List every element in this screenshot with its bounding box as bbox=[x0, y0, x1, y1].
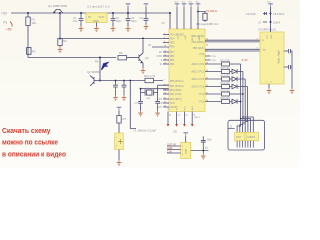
svg-text:C4: C4 bbox=[140, 16, 144, 20]
svg-text:32: 32 bbox=[164, 98, 166, 100]
radio top wire with caps bbox=[246, 2, 285, 32]
transistor Q2 bbox=[87, 70, 100, 86]
svg-text:1838: 1838 bbox=[186, 148, 188, 154]
buzzer branch flag bbox=[117, 107, 122, 110]
svg-text:PD1 (TXD): PD1 (TXD) bbox=[170, 94, 181, 96]
U5 power flag bbox=[183, 133, 188, 143]
svg-text:9: 9 bbox=[164, 41, 165, 43]
svg-text:C6 10uF: C6 10uF bbox=[246, 12, 256, 16]
svg-text:R2: R2 bbox=[63, 39, 67, 43]
svg-text:25: 25 bbox=[185, 115, 187, 117]
svg-text:11: 11 bbox=[164, 51, 166, 53]
resistor R7 bbox=[117, 111, 127, 134]
svg-text:U3 NRF24L01: U3 NRF24L01 bbox=[258, 28, 276, 32]
background sheet bbox=[0, 0, 300, 168]
svg-text:19: 19 bbox=[164, 106, 166, 108]
svg-text:PC6: PC6 bbox=[170, 103, 175, 105]
LED D2 bbox=[232, 69, 237, 74]
svg-text:C9 100nF: C9 100nF bbox=[206, 9, 218, 13]
ground under C2 bbox=[111, 26, 116, 31]
svg-text:100n: 100n bbox=[116, 19, 122, 23]
capacitor C3 with +3.3V flag bbox=[126, 4, 138, 26]
resistor R3 bbox=[27, 48, 36, 55]
svg-text:16M: 16M bbox=[146, 98, 150, 100]
svg-text:PC5: PC5 bbox=[200, 102, 205, 104]
svg-text:16: 16 bbox=[206, 45, 208, 47]
wire MCU drive bbox=[60, 38, 163, 40]
svg-text:C8 100nF: C8 100nF bbox=[273, 12, 285, 16]
resistor R14 bbox=[221, 82, 231, 89]
buzzer LS1 bbox=[115, 133, 124, 160]
node C5 label bbox=[162, 22, 166, 25]
svg-text:P1: P1 bbox=[4, 20, 8, 24]
svg-text:PB1: PB1 bbox=[170, 60, 175, 62]
ground under C1 bbox=[79, 26, 84, 31]
bottom rail bbox=[97, 80, 163, 82]
svg-text:R5: R5 bbox=[95, 60, 99, 64]
MCU top pins with power flags bbox=[175, 2, 201, 29]
svg-text:12: 12 bbox=[164, 55, 166, 57]
svg-text:100n: 100n bbox=[207, 139, 213, 142]
svg-text:Radio_Right: Radio_Right bbox=[278, 50, 281, 64]
connector J1 box bbox=[228, 120, 265, 150]
rail mid horizontal bbox=[28, 57, 116, 59]
wire Q1 base down bbox=[59, 12, 61, 40]
svg-text:PB7 (XTAL2): PB7 (XTAL2) bbox=[170, 85, 184, 88]
capacitor C6 bbox=[122, 80, 127, 95]
svg-text:PD6: PD6 bbox=[170, 47, 175, 49]
ground under C6 bbox=[122, 95, 127, 100]
capacitor C4 with +3.3V flag bbox=[140, 4, 149, 24]
transistor Q3 bbox=[139, 38, 149, 69]
svg-text:2: 2 bbox=[164, 37, 165, 39]
svg-text:ATmega328P-AU: ATmega328P-AU bbox=[196, 22, 218, 26]
wire top rail end to flag bbox=[169, 12, 171, 29]
svg-text:29: 29 bbox=[164, 102, 166, 104]
svg-text:Y1 16MHz-C/22pF: Y1 16MHz-C/22pF bbox=[133, 129, 156, 133]
svg-text:PD2 (INT0): PD2 (INT0) bbox=[170, 99, 182, 101]
LED D5 bbox=[232, 99, 237, 104]
resistor R13 bbox=[221, 74, 231, 81]
svg-text:PB4 (MISO): PB4 (MISO) bbox=[192, 42, 205, 44]
wire: +5V top rail bbox=[11, 12, 170, 14]
svg-text:7: 7 bbox=[164, 80, 165, 82]
svg-text:1: 1 bbox=[267, 82, 268, 84]
svg-text:PC4: PC4 bbox=[200, 94, 205, 96]
svg-text:GND: GND bbox=[185, 35, 187, 40]
svg-text:14: 14 bbox=[164, 63, 166, 65]
node +5V label bbox=[1, 11, 8, 15]
capacitor C1 bbox=[73, 12, 83, 26]
svg-text:10: 10 bbox=[164, 45, 166, 47]
svg-text:PD0 (RXD): PD0 (RXD) bbox=[170, 90, 182, 92]
ground under U1 bbox=[94, 26, 99, 31]
svg-text:R11 220: R11 220 bbox=[221, 59, 231, 62]
svg-text:10k: 10k bbox=[32, 21, 37, 25]
svg-text:OUT: OUT bbox=[236, 136, 242, 139]
svg-text:ICSP: ICSP bbox=[157, 56, 163, 58]
MCU pin numbers bbox=[164, 33, 208, 108]
U5 left pins with net labels bbox=[167, 143, 181, 153]
ground under R2 bbox=[58, 46, 63, 53]
svg-text:3: 3 bbox=[257, 38, 258, 40]
MCU left pins bbox=[152, 35, 169, 108]
ground under Q3 bbox=[141, 68, 146, 73]
connector pin wires bbox=[237, 141, 253, 148]
svg-text:8: 8 bbox=[164, 85, 165, 87]
wire buzzer net label bbox=[129, 80, 156, 133]
ground radio right bbox=[290, 88, 295, 93]
ground under C8 bbox=[155, 111, 160, 116]
ground under C5 bbox=[113, 95, 118, 100]
svg-text:Q3: Q3 bbox=[145, 56, 149, 60]
LED rows: resistors and LEDs bbox=[205, 64, 248, 102]
connector inner block bbox=[235, 132, 259, 141]
svg-text:10u: 10u bbox=[73, 19, 78, 23]
svg-text:3V3: 3V3 bbox=[175, 2, 178, 4]
svg-text:30: 30 bbox=[164, 89, 166, 91]
svg-text:R15 220: R15 220 bbox=[221, 89, 231, 92]
svg-text:R12 220: R12 220 bbox=[221, 67, 231, 70]
svg-text:R7: R7 bbox=[123, 117, 127, 121]
resistor R15 bbox=[221, 89, 231, 96]
IR receiver U5 bbox=[174, 131, 191, 159]
svg-text:22: 22 bbox=[193, 115, 195, 117]
capacitor C9 AREF bbox=[197, 9, 218, 22]
annotation red text bbox=[2, 127, 67, 159]
wire regulator gnd bbox=[96, 23, 98, 27]
svg-text:PB6 (XTAL1): PB6 (XTAL1) bbox=[170, 80, 184, 83]
svg-text:можно по ссылке: можно по ссылке bbox=[2, 139, 58, 147]
resistor R12 bbox=[221, 67, 231, 74]
svg-text:ADC7: ADC7 bbox=[195, 116, 202, 119]
svg-text:3V3: 3V3 bbox=[196, 2, 199, 4]
svg-text:R3: R3 bbox=[32, 50, 36, 54]
capacitor C7 bbox=[134, 99, 143, 111]
svg-text:Q2 S8050: Q2 S8050 bbox=[87, 70, 100, 74]
capacitor C8 bbox=[155, 99, 164, 111]
svg-text:24: 24 bbox=[178, 115, 180, 117]
svg-text:GND: GND bbox=[93, 19, 99, 23]
MCU top pin names rotated bbox=[178, 34, 201, 40]
svg-text:R14 220: R14 220 bbox=[221, 82, 231, 85]
resistor R1 bbox=[26, 12, 37, 58]
MCU left pin names bbox=[170, 35, 185, 110]
svg-text:PB5 (SCK): PB5 (SCK) bbox=[193, 48, 204, 50]
crystal Y1 bbox=[140, 85, 169, 100]
right stub pins PD5 PD6 bbox=[205, 56, 217, 62]
ground under U5 cap bbox=[201, 154, 206, 159]
MCU right pin names bbox=[191, 36, 204, 104]
net label radio bbox=[242, 58, 249, 62]
net stub labels left of MCU bbox=[148, 45, 163, 109]
svg-text:3.3V: 3.3V bbox=[242, 58, 249, 62]
MCU U2 ATmega328P bbox=[169, 22, 218, 112]
svg-text:+5V: +5V bbox=[6, 28, 13, 32]
svg-text:R13 220: R13 220 bbox=[221, 74, 231, 77]
svg-text:3.3V: 3.3V bbox=[167, 150, 172, 153]
ground under C7 bbox=[138, 111, 143, 116]
net flag +5V (red) bbox=[4, 20, 13, 31]
svg-text:3V3: 3V3 bbox=[267, 2, 270, 4]
svg-text:VCC: VCC bbox=[178, 35, 180, 40]
svg-text:RX: RX bbox=[159, 99, 163, 101]
svg-text:ADC1 / PC1: ADC1 / PC1 bbox=[191, 71, 204, 74]
svg-text:Q1 SMBT3906: Q1 SMBT3906 bbox=[48, 4, 68, 8]
svg-text:5V: 5V bbox=[205, 147, 208, 150]
svg-text:GND: GND bbox=[271, 34, 273, 39]
radio module U3 NRF24L01 bbox=[257, 28, 285, 85]
wiper arrow D1 bbox=[95, 60, 109, 71]
svg-text:R6: R6 bbox=[119, 51, 123, 55]
svg-text:VCC: VCC bbox=[267, 34, 269, 39]
svg-text:PC0: PC0 bbox=[200, 54, 205, 56]
capacitor C2 bbox=[111, 12, 123, 26]
wires MCU to radio bbox=[205, 40, 260, 51]
capacitor C5 bbox=[113, 80, 118, 95]
MCU bottom pin names bbox=[168, 105, 194, 110]
svg-text:в описании к видео: в описании к видео bbox=[2, 150, 67, 158]
svg-text:PD4: PD4 bbox=[170, 39, 175, 41]
svg-text:3V3: 3V3 bbox=[182, 2, 185, 4]
LED D3 bbox=[232, 77, 237, 82]
U5 right wire, cap and ground bbox=[191, 136, 213, 153]
resistor R10 bbox=[144, 74, 156, 83]
svg-text:ADC0 / PC0: ADC0 / PC0 bbox=[191, 63, 204, 66]
svg-text:C7: C7 bbox=[258, 20, 262, 24]
ground under buzzer bbox=[117, 160, 122, 165]
svg-text:PB2: PB2 bbox=[170, 64, 175, 66]
svg-text:31: 31 bbox=[164, 93, 166, 95]
svg-text:R16 220: R16 220 bbox=[221, 97, 231, 100]
svg-text:128x64: 128x64 bbox=[247, 136, 256, 139]
svg-text:PB0: PB0 bbox=[170, 56, 175, 58]
svg-text:PB3 (MOSI): PB3 (MOSI) bbox=[192, 36, 205, 38]
LED D4 bbox=[232, 84, 237, 89]
ground radio bottom bbox=[267, 84, 272, 93]
svg-text:CSN: CSN bbox=[262, 50, 267, 52]
resistor R11 bbox=[221, 59, 231, 66]
MCU bottom pins unconnected bbox=[167, 112, 202, 127]
bus wires to connector bbox=[237, 64, 253, 132]
ground under C3 bbox=[126, 26, 131, 31]
svg-text:13: 13 bbox=[164, 59, 166, 61]
transistor Q1 bbox=[48, 4, 68, 13]
svg-text:100nF: 100nF bbox=[273, 20, 281, 24]
radio right caps bbox=[284, 49, 292, 88]
wire mid to bottom rail bbox=[99, 57, 101, 82]
svg-text:R10 4.7k: R10 4.7k bbox=[144, 74, 156, 78]
svg-text:23: 23 bbox=[169, 115, 171, 117]
junction dots bus bbox=[240, 93, 246, 121]
svg-text:U1 ams1117-3.3: U1 ams1117-3.3 bbox=[87, 5, 110, 9]
svg-text:ADC2 / PC2: ADC2 / PC2 bbox=[191, 78, 204, 81]
svg-text:4: 4 bbox=[257, 48, 258, 50]
resistor R6 bbox=[118, 51, 139, 60]
svg-text:PD5: PD5 bbox=[170, 43, 175, 45]
ground under C4 bbox=[144, 24, 149, 29]
svg-text:Скачать схему: Скачать схему bbox=[2, 127, 51, 135]
svg-text:+5V: +5V bbox=[1, 11, 8, 15]
svg-text:100n: 100n bbox=[131, 19, 137, 23]
resistor R16 bbox=[221, 97, 231, 104]
svg-text:PD7: PD7 bbox=[170, 52, 175, 54]
svg-text:3V3: 3V3 bbox=[189, 2, 192, 4]
svg-text:INT: INT bbox=[158, 107, 162, 109]
svg-text:2: 2 bbox=[271, 82, 272, 84]
svg-text:IN: IN bbox=[88, 15, 91, 19]
resistor R2 bbox=[58, 39, 67, 46]
svg-text:1: 1 bbox=[164, 33, 165, 35]
svg-text:ADC3 / PC3: ADC3 / PC3 bbox=[191, 86, 204, 89]
svg-text:OUT: OUT bbox=[99, 15, 105, 19]
regulator U1 AMS1117-3.3 bbox=[86, 5, 110, 23]
